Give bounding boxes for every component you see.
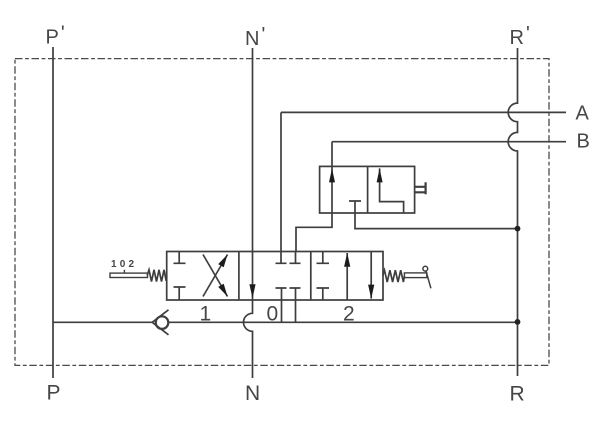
check valve ball — [156, 316, 169, 329]
junction dot bottom line at R — [515, 319, 521, 325]
wire section 0 bottom left port to bottom line — [281, 300, 283, 322]
left spring — [147, 270, 167, 282]
left actuator detent tick — [123, 270, 125, 273]
pilot valve U2 position divider — [367, 166, 369, 213]
section 0 top right blocked port — [290, 252, 301, 264]
wire R vertical line with hops at A and B — [508, 48, 517, 376]
pilot valve U2 plunger actuator — [415, 182, 426, 194]
svg-text:N: N — [245, 382, 260, 405]
wire B drop into pilot valve — [331, 142, 333, 167]
pilot valve U2 body — [320, 166, 415, 213]
right spring — [383, 270, 405, 282]
main valve U1 body — [167, 252, 383, 301]
section 1 crossed flow arrow 2 — [218, 255, 227, 268]
main valve U1 divider 1-0 — [238, 252, 240, 301]
svg-text:B: B — [577, 131, 590, 153]
main valve U1 divider 0-2 — [310, 252, 312, 301]
section 1 crossed flow line 1 — [203, 255, 228, 297]
wire A horizontal line — [281, 111, 566, 113]
pilot valve U2 blocked port T — [349, 201, 361, 213]
pilot valve U2 right position arrow — [377, 168, 383, 182]
section 2 top blocked port — [317, 252, 330, 264]
section 2 up flow line — [346, 253, 348, 300]
svg-text:P: P — [47, 382, 61, 405]
wire B horizontal line — [332, 141, 566, 143]
svg-text:102: 102 — [111, 259, 137, 270]
left actuator pin — [110, 273, 148, 277]
right actuator lever — [426, 271, 431, 288]
wire A branch down to main valve — [280, 112, 282, 251]
svg-text:0: 0 — [267, 303, 279, 326]
section 2 down flow line — [370, 252, 372, 299]
check valve seat — [152, 310, 168, 335]
right actuator rod — [404, 273, 426, 278]
wire N lower with hop over bottom line — [244, 300, 253, 378]
section 0 top left blocked port — [276, 252, 287, 264]
wire P vertical line — [52, 47, 54, 378]
svg-text:1: 1 — [200, 303, 212, 326]
pilot valve U2 right position flow path — [380, 168, 404, 213]
wire bottom line left segment P to check valve — [53, 321, 152, 323]
section 2 bottom blocked port — [317, 288, 330, 300]
section 0 bottom right blocked port — [290, 288, 301, 300]
right actuator lever knob — [423, 266, 428, 271]
section 0 bottom left blocked port — [276, 288, 287, 300]
section 2 up flow arrow — [344, 253, 350, 267]
section 1 top blocked port — [174, 252, 186, 264]
wire section 0 bottom right port to bottom line — [295, 300, 297, 322]
wire pilot valve lower port jog to main valve — [296, 213, 332, 252]
pilot valve U2 left position arrow — [329, 168, 335, 182]
section 1 crossed flow arrow 1 — [218, 284, 227, 297]
wire N upper vertical line — [252, 48, 254, 252]
enclosure dashed border — [15, 59, 549, 366]
wire N through main valve — [252, 252, 254, 301]
junction dot tank line at R — [515, 226, 521, 232]
svg-text:A: A — [576, 103, 590, 125]
pilot valve U2 left position flow line — [331, 166, 333, 213]
svg-text:R: R — [510, 383, 525, 406]
section 1 bottom blocked port — [174, 287, 186, 300]
section 0 down arrow on N passage — [249, 284, 255, 298]
section 2 down flow arrow — [368, 285, 374, 299]
wire pilot valve tank line to R — [355, 213, 518, 229]
svg-text:2: 2 — [343, 303, 355, 326]
wire bottom line right segment to R — [169, 321, 518, 323]
section 1 crossed flow line 2 — [203, 255, 228, 297]
